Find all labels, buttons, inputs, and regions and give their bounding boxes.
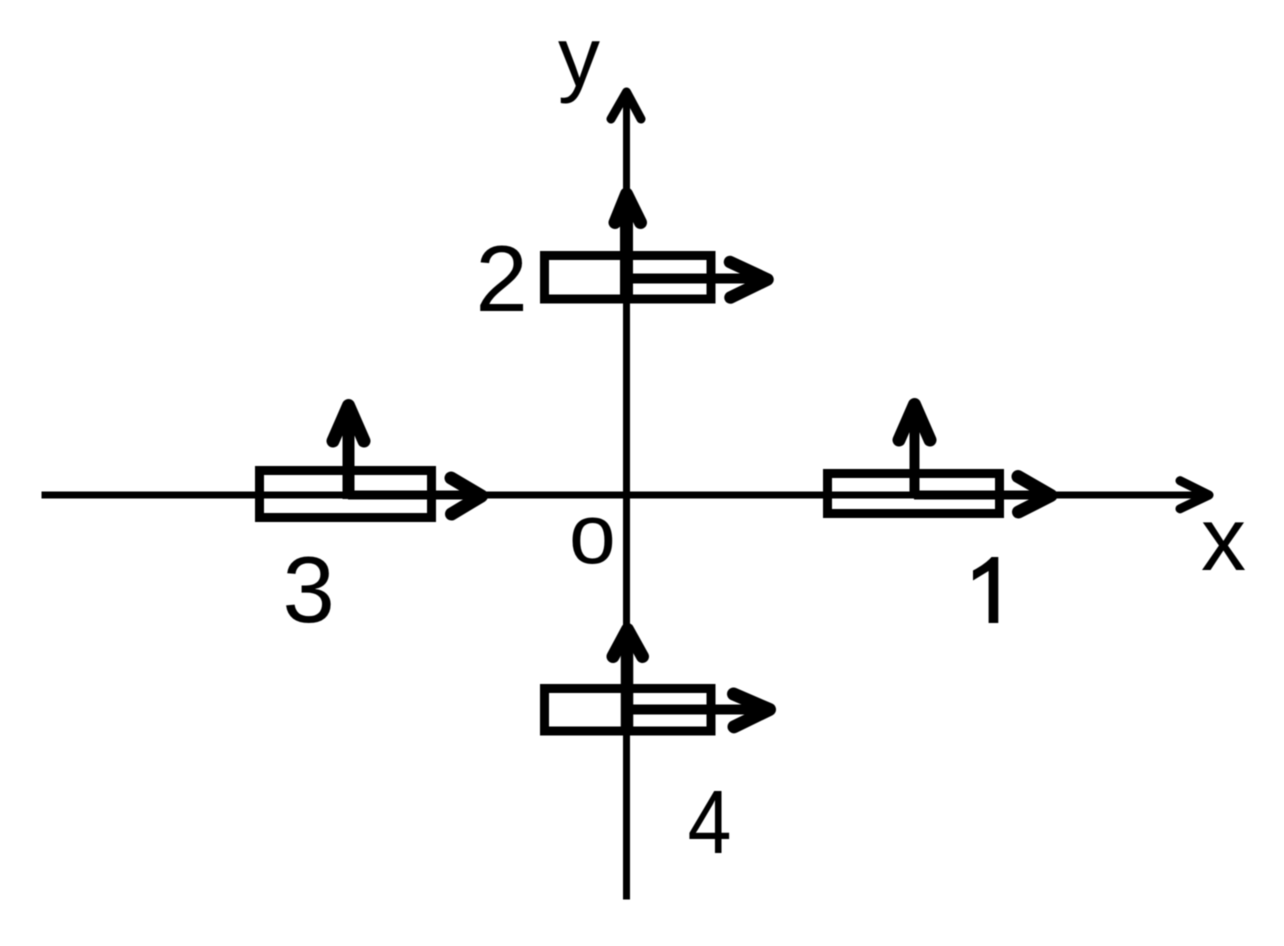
block 3 up-arrow head: [333, 406, 364, 442]
block 4 up-arrow shaft: [621, 632, 634, 735]
svg-text:o: o: [569, 487, 616, 581]
svg-text:x: x: [1201, 490, 1246, 590]
block 4 rect (bottom): [545, 689, 712, 732]
block 2 right-arrow shaft: [627, 274, 761, 284]
block 4 up-arrow head: [613, 630, 643, 657]
block 3 right-arrow head: [451, 478, 482, 514]
block 1 right-arrow shaft: [914, 491, 1040, 500]
block 4 right-arrow shaft: [627, 705, 763, 715]
block 2 up-arrow shaft: [620, 197, 633, 303]
block 1 rect (right): [828, 474, 1000, 514]
block 3 right-arrow shaft: [348, 491, 470, 500]
block 1 right-arrow head: [1018, 477, 1051, 513]
x-axis arrowhead: [1180, 481, 1209, 509]
block 2 rect (top): [545, 256, 712, 300]
block 4 right-arrow head: [734, 694, 770, 727]
label 1: [973, 557, 998, 623]
y-axis arrowhead: [611, 92, 641, 119]
svg-text:3: 3: [283, 537, 335, 642]
block 1 up-arrow head: [899, 405, 930, 441]
y-axis: [623, 90, 630, 900]
block 2 up-arrow head: [615, 194, 641, 223]
svg-text:4: 4: [688, 771, 732, 872]
svg-text:2: 2: [476, 226, 528, 331]
svg-text:y: y: [558, 10, 600, 104]
block 3 rect (left): [260, 471, 432, 518]
block 2 right-arrow head: [730, 262, 768, 298]
x-axis: [42, 492, 1206, 499]
block 3 up-arrow shaft: [343, 409, 355, 499]
block 1 up-arrow shaft: [910, 408, 920, 497]
